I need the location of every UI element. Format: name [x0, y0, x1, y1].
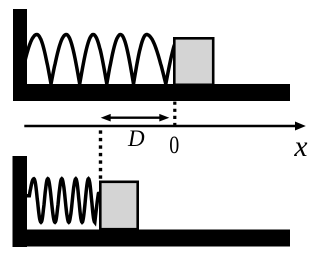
svg-text:0: 0 — [169, 132, 179, 159]
x axis — [24, 122, 306, 131]
wall (top) — [13, 9, 27, 101]
svg-text:D: D — [127, 126, 145, 151]
floor (top) — [13, 84, 290, 101]
spring (compressed, bottom) — [27, 179, 98, 223]
displacement double arrow D — [101, 114, 170, 122]
svg-text:x: x — [293, 131, 307, 163]
block (top, at equilibrium) — [174, 38, 213, 85]
wall (bottom) — [13, 156, 28, 247]
spring (relaxed, top) — [25, 35, 174, 85]
dotted line at x=0 — [173, 102, 176, 126]
floor (bottom) — [13, 230, 291, 247]
block (bottom, compressed position) — [100, 182, 137, 229]
dotted line at x=-D — [99, 130, 102, 180]
